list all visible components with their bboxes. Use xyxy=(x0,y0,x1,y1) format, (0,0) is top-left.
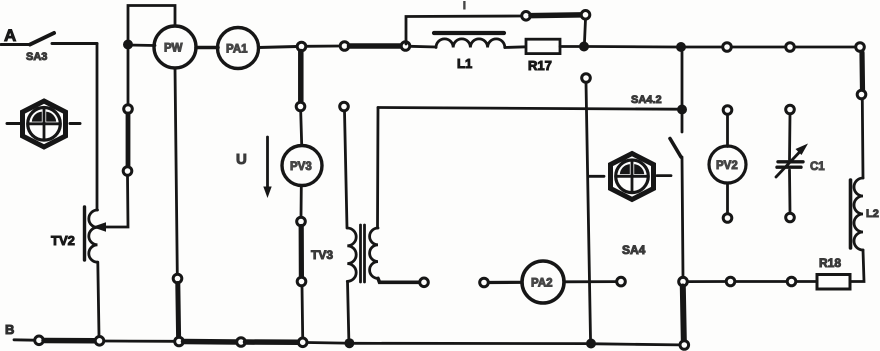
svg-text:i: i xyxy=(463,1,466,12)
terminal PV2 bottom xyxy=(723,214,732,223)
svg-text:SA3: SA3 xyxy=(26,51,47,63)
terminal xyxy=(237,338,246,347)
terminal xyxy=(297,277,306,286)
link bar xyxy=(175,284,181,338)
wire TV3 secondary bottom xyxy=(378,278,420,282)
wire xyxy=(301,111,302,145)
terminal xyxy=(617,277,626,286)
svg-text:R17: R17 xyxy=(528,58,552,73)
wire TV3 secondary top xyxy=(376,108,379,229)
capacitor C1 (variable) xyxy=(776,144,825,178)
terminal mid branch xyxy=(582,74,591,83)
wattmeter PW xyxy=(154,26,196,68)
terminal xyxy=(173,274,182,283)
link bar xyxy=(298,52,304,102)
terminal xyxy=(35,336,44,345)
wire junction to PW xyxy=(128,44,155,47)
terminal xyxy=(175,337,184,346)
lamp HL2 xyxy=(611,154,654,200)
node junction xyxy=(586,339,596,349)
wire to wiper xyxy=(106,176,128,228)
wire xyxy=(796,280,817,283)
wire loop to PW xyxy=(128,6,175,45)
wire xyxy=(300,186,303,217)
link bar xyxy=(126,114,131,167)
terminal xyxy=(95,337,104,346)
bus wire xyxy=(596,344,680,345)
svg-text:PA2: PA2 xyxy=(531,278,553,290)
wire PW voltage coil down xyxy=(175,68,177,274)
svg-text:R18: R18 xyxy=(819,256,841,270)
wire xyxy=(1,43,30,46)
inductor L2 xyxy=(851,178,879,250)
svg-text:TV2: TV2 xyxy=(51,233,75,248)
terminal xyxy=(420,278,429,287)
wire xyxy=(196,46,218,50)
link bar xyxy=(350,43,401,49)
autotransformer TV2 xyxy=(51,207,98,262)
terminal xyxy=(581,11,590,20)
voltmeter PV2 xyxy=(709,146,746,183)
transformer TV3 primary terminal xyxy=(340,102,349,111)
wire xyxy=(686,46,723,49)
wire xyxy=(589,45,676,48)
bus wire xyxy=(104,340,175,343)
wire dash left of HL1 xyxy=(7,122,20,125)
terminal xyxy=(787,277,796,286)
bus wire xyxy=(14,338,35,341)
lamp HL1 xyxy=(23,101,66,147)
wire dash right of HL2 xyxy=(657,174,671,177)
svg-text:L2: L2 xyxy=(866,208,879,220)
svg-text:PV3: PV3 xyxy=(290,161,312,173)
ammeter PA1 xyxy=(218,28,259,69)
wire xyxy=(98,262,99,336)
arrow U xyxy=(263,137,271,198)
wire xyxy=(850,250,864,282)
terminal xyxy=(124,105,133,114)
terminal C1 bottom xyxy=(786,213,795,222)
wire xyxy=(306,45,340,48)
wire TV3 primary to bus xyxy=(348,281,349,338)
wire xyxy=(732,46,786,49)
bypass wire down xyxy=(585,19,586,42)
terminal xyxy=(726,277,735,286)
wire xyxy=(259,47,298,48)
wire xyxy=(688,280,727,283)
wire xyxy=(564,280,617,283)
wire xyxy=(795,46,856,49)
terminal xyxy=(857,90,866,99)
bus link bar xyxy=(184,339,237,345)
terminal xyxy=(679,277,688,286)
wire xyxy=(861,99,865,178)
wire mid vertical xyxy=(586,83,591,339)
terminal xyxy=(298,338,307,347)
wire SA4.2 horizontal xyxy=(378,108,677,110)
svg-text:SA4.2: SA4.2 xyxy=(631,94,662,106)
wire xyxy=(788,170,791,213)
terminal xyxy=(297,42,306,51)
wire TV2 branch xyxy=(127,50,130,106)
terminal xyxy=(297,217,306,226)
resistor R17 xyxy=(526,39,560,73)
node junction xyxy=(344,338,354,348)
node junction xyxy=(579,42,589,52)
transformer TV3 xyxy=(311,225,378,282)
svg-text:PW: PW xyxy=(164,43,183,55)
link bar xyxy=(859,53,865,91)
terminal xyxy=(401,42,410,51)
switch SA3 xyxy=(26,33,54,63)
wire xyxy=(505,45,526,49)
terminal PV2 top xyxy=(723,106,732,115)
switch SA4.2 wire xyxy=(681,52,684,105)
wire xyxy=(96,44,99,211)
terminal xyxy=(296,102,305,111)
terminal xyxy=(786,43,795,52)
terminal xyxy=(723,43,732,52)
wire xyxy=(52,42,97,45)
link bar xyxy=(531,12,581,18)
terminal xyxy=(856,43,865,52)
wiper arrow TV2 xyxy=(92,222,106,232)
svg-text:B: B xyxy=(5,322,14,337)
link bar xyxy=(299,227,304,277)
ammeter PA2 xyxy=(522,261,564,303)
svg-text:C1: C1 xyxy=(810,161,825,173)
wire xyxy=(345,111,348,228)
wire xyxy=(726,184,729,214)
svg-text:U: U xyxy=(236,151,247,168)
wire xyxy=(726,115,729,147)
terminal xyxy=(522,12,531,21)
bus link bar xyxy=(44,338,95,344)
terminal C1 top xyxy=(786,105,795,114)
wire dash right of HL1 xyxy=(70,122,80,125)
terminal xyxy=(680,341,689,350)
bypass wire up-left xyxy=(406,16,522,44)
node junction xyxy=(123,40,133,50)
voltmeter PV3 xyxy=(282,146,322,186)
bus link bar xyxy=(246,339,299,345)
terminal xyxy=(340,42,349,51)
svg-text:PV2: PV2 xyxy=(716,160,738,172)
bus wire xyxy=(355,342,587,345)
switch SA4 xyxy=(622,114,683,278)
wire xyxy=(489,281,523,284)
inductor L1 xyxy=(434,33,505,71)
bus wire xyxy=(307,341,345,344)
node junction xyxy=(677,105,687,115)
wire xyxy=(560,45,579,48)
wire xyxy=(301,286,305,338)
link bar xyxy=(683,287,684,341)
wire xyxy=(410,45,436,49)
wire dash left of HL2 xyxy=(589,175,604,178)
svg-text:A: A xyxy=(4,26,16,45)
resistor R18 xyxy=(817,256,850,289)
svg-text:L1: L1 xyxy=(457,56,472,71)
svg-text:PA1: PA1 xyxy=(226,44,248,56)
svg-text:TV3: TV3 xyxy=(311,248,333,262)
svg-text:SA4: SA4 xyxy=(622,243,646,257)
node junction xyxy=(676,42,686,52)
terminal xyxy=(123,167,132,176)
wire xyxy=(788,114,791,160)
wire xyxy=(735,280,787,283)
terminal xyxy=(480,278,489,287)
